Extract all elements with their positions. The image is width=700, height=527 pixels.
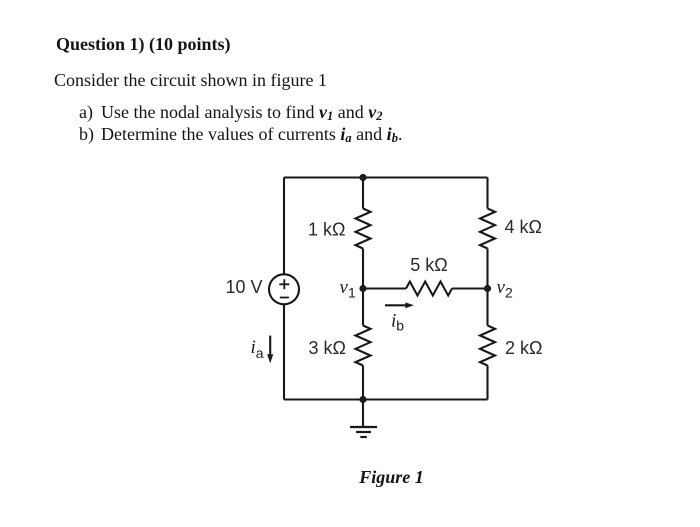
- voltage source plus sign: [279, 279, 289, 289]
- voltage source minus sign: [280, 297, 289, 299]
- svg-text:5 kΩ: 5 kΩ: [410, 255, 447, 275]
- svg-text:v1: v1: [340, 277, 356, 300]
- wire right branch upper: [486, 178, 488, 209]
- wire middle branch lower: [362, 366, 364, 400]
- resistor R5 5 kOhm: [406, 282, 452, 296]
- ground stem: [362, 400, 364, 428]
- svg-text:ia: ia: [251, 337, 264, 361]
- wire R5 to node v2: [452, 287, 488, 289]
- question heading: [56, 35, 231, 53]
- wire middle branch mid: [362, 249, 364, 326]
- intro line: [54, 71, 327, 89]
- ground bar 3: [360, 436, 367, 438]
- svg-text:4 kΩ: 4 kΩ: [505, 217, 542, 237]
- wire right branch lower: [486, 366, 488, 400]
- wire left branch lower: [283, 304, 285, 399]
- svg-text:10 V: 10 V: [225, 277, 262, 297]
- wire node v1 to R5: [363, 287, 406, 289]
- item a: [79, 103, 382, 123]
- item b: [79, 125, 402, 145]
- node v2 junction: [484, 285, 491, 292]
- ground bar 1: [350, 426, 377, 428]
- current arrow ib line: [385, 304, 407, 306]
- svg-text:3 kΩ: 3 kΩ: [309, 338, 346, 358]
- svg-text:ib: ib: [391, 311, 404, 334]
- resistor R1 1 kOhm: [356, 209, 371, 249]
- wire middle branch upper: [362, 178, 364, 209]
- wire top horizontal: [284, 176, 488, 178]
- resistor R4 4 kOhm: [480, 209, 495, 249]
- current arrow ib head: [405, 302, 414, 308]
- wire bottom horizontal: [284, 398, 488, 400]
- svg-text:v2: v2: [497, 277, 513, 300]
- svg-text:1 kΩ: 1 kΩ: [308, 219, 345, 239]
- wire left branch upper: [283, 178, 285, 275]
- node junction top: [359, 174, 366, 181]
- resistor R2 2 kOhm: [480, 326, 495, 366]
- ground bar 2: [356, 431, 371, 433]
- current arrow ia line: [269, 336, 271, 356]
- current arrow ia head: [267, 354, 273, 363]
- node junction bottom: [359, 396, 366, 403]
- resistor R3 3 kOhm: [356, 326, 371, 366]
- wire right branch mid: [486, 249, 488, 326]
- svg-text:2 kΩ: 2 kΩ: [505, 338, 542, 358]
- node v1 junction: [359, 285, 366, 292]
- svg-text:Figure 1: Figure 1: [358, 467, 424, 487]
- voltage source V1 circle: [269, 274, 299, 304]
